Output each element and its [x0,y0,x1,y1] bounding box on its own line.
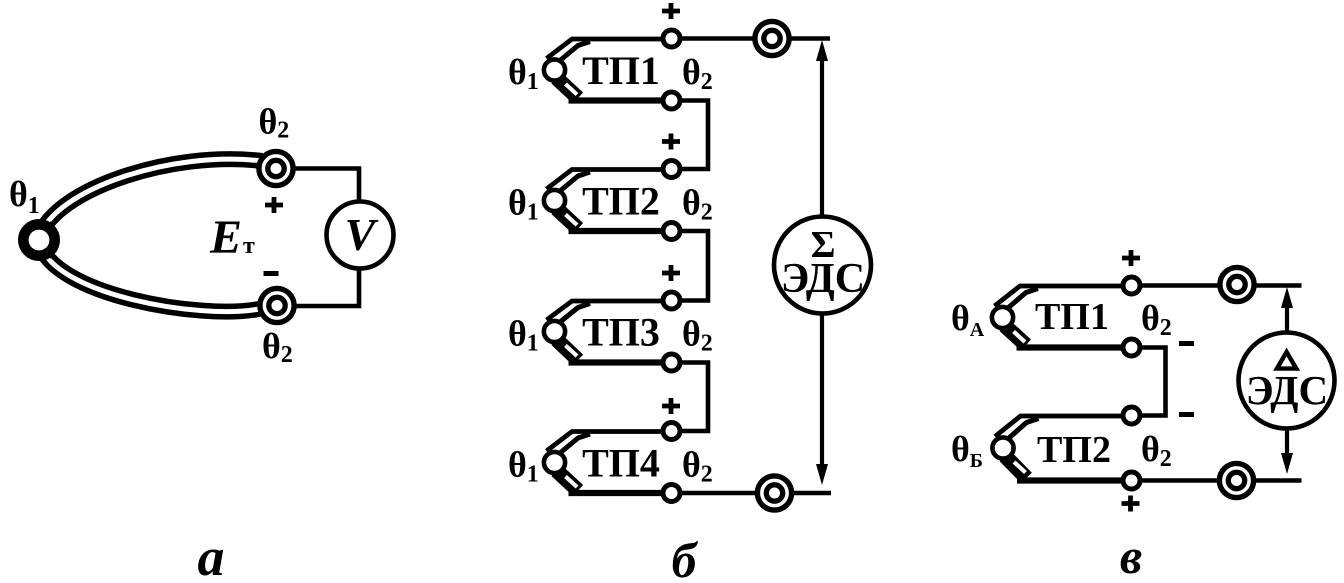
node TP1 bottom (fig b) [663,92,680,109]
label theta2 bottom (fig a) [262,326,293,368]
figure label b [672,532,699,583]
diff EMF circle (fig v) [1239,333,1335,429]
node TP1 top (fig v) [1123,277,1140,294]
thermocouple TP2 chevron (fig v) [992,416,1131,481]
svg-text:ЭДС: ЭДС [1246,367,1328,413]
label theta2 top (fig a) [259,102,290,144]
junction neck fillet (fig a) [50,221,58,259]
output terminal top (fig v) [1220,267,1254,301]
node TP2 bottom (fig v) [1123,472,1140,489]
minus sign upper (fig v) [1179,341,1194,346]
terminal theta2 bottom (fig a) [260,288,294,322]
label TP4 (fig b) [582,441,660,486]
svg-text:ТП2: ТП2 [582,179,660,224]
plus sign above TP1 positive node (fig b) [662,3,680,19]
label TP1 (fig b) [582,48,660,93]
wire series link TP2 to TP3 (fig b) [672,231,709,301]
node TP4 top (fig b) [663,423,680,440]
terminal theta2 top (fig a) [259,151,293,185]
label theta1 of TP3 (fig b) [508,314,539,357]
figure label v [1120,528,1142,583]
wire terminal to voltmeter bottom (fig a) [291,267,359,306]
label theta2 of TP4 (fig b) [682,445,713,488]
svg-text:V: V [345,209,379,260]
plus sign bottom (fig v) [1122,496,1140,512]
label theta1 of TP4 (fig b) [508,445,539,488]
label theta1 of TP2 (fig b) [508,183,539,226]
node TP4 bottom (fig b) [663,485,680,502]
figure label a [198,527,225,583]
diff EMF arrow up (fig v) [1281,287,1293,332]
output terminal bottom (fig v) [1219,463,1253,497]
sum EMF arrow down (fig b) [816,314,828,485]
label theta1 of TP1 (fig b) [508,52,539,95]
wire TP1 top node to output terminal (fig b) [672,36,831,41]
label Et emf (fig a) [209,211,255,264]
wire series link TP3 to TP4 (fig b) [672,363,709,432]
minus sign lower (fig v) [1179,412,1194,417]
thermocouple TP1 chevron (fig v) [992,286,1132,348]
svg-text:а: а [198,527,225,583]
node TP1 top (fig b) [663,30,680,47]
sum EMF arrow up (fig b) [816,40,828,216]
label TP1 (fig v) [1035,296,1109,338]
wire series link TP1 to TP2 (fig b) [672,101,709,170]
label TP2 (fig b) [582,179,660,224]
svg-text:ТП2: ТП2 [1037,429,1111,471]
wire TP1 top node to terminal (fig v) [1132,283,1302,288]
wire TP4 bottom node to output terminal (fig b) [672,491,832,496]
plus sign above TP4 positive node (fig b) [662,398,680,414]
minus sign (fig a) [264,271,279,276]
label theta2 of TP3 (fig b) [682,314,713,357]
label TP2 (fig v) [1037,429,1111,471]
thermocouple TP1 chevron (fig b) [544,39,672,101]
svg-text:ТП1: ТП1 [1035,296,1109,338]
voltmeter V (fig a) [327,202,394,269]
thermocouple wire bottom electrode (fig a) [40,244,259,312]
node TP1 bottom (fig v) [1123,339,1140,356]
label theta2 of TP2 (fig v) [1141,429,1172,472]
node TP3 bottom (fig b) [663,354,680,371]
wire terminal to voltmeter top (fig a) [290,169,359,204]
label theta1 (fig a) [9,174,40,219]
thermocouple wire top electrode (fig a) [40,159,262,236]
wire differential link TP1 to TP2 (fig v) [1132,348,1166,416]
label thetaB (fig v) [951,429,983,472]
svg-text:ТП3: ТП3 [582,310,660,355]
label theta2 of TP1 (fig v) [1141,298,1172,341]
label thetaA (fig v) [951,298,985,341]
svg-text:ТП4: ТП4 [582,441,660,486]
plus sign above TP3 positive node (fig b) [662,265,680,281]
node TP2 bottom (fig b) [663,223,680,240]
svg-text:ТП1: ТП1 [582,48,660,93]
thermocouple TP4 chevron (fig b) [544,432,672,494]
plus sign above TP2 positive node (fig b) [662,134,680,150]
wire TP2 bottom node to terminal (fig v) [1132,478,1302,483]
label theta2 of TP2 (fig b) [682,183,713,226]
sum EMF circle (fig b) [774,217,871,314]
node TP3 top (fig b) [663,292,680,309]
svg-text:в: в [1120,528,1142,583]
output terminal top (fig b) [755,21,789,55]
plus sign top (fig v) [1122,250,1140,266]
plus sign (fig a) [265,197,283,213]
output terminal bottom (fig b) [757,476,791,510]
svg-text:б: б [672,532,699,583]
hot junction theta1 (fig a) [23,224,54,255]
thermocouple TP3 chevron (fig b) [544,301,672,363]
svg-text:ЭДС: ЭДС [781,256,865,302]
node TP2 top (fig v) [1123,407,1140,424]
thermocouple TP2 chevron (fig b) [544,170,672,232]
label TP3 (fig b) [582,310,660,355]
label theta2 of TP1 (fig b) [682,52,713,95]
node TP2 top (fig b) [663,161,680,178]
diff EMF arrow down (fig v) [1281,429,1293,474]
